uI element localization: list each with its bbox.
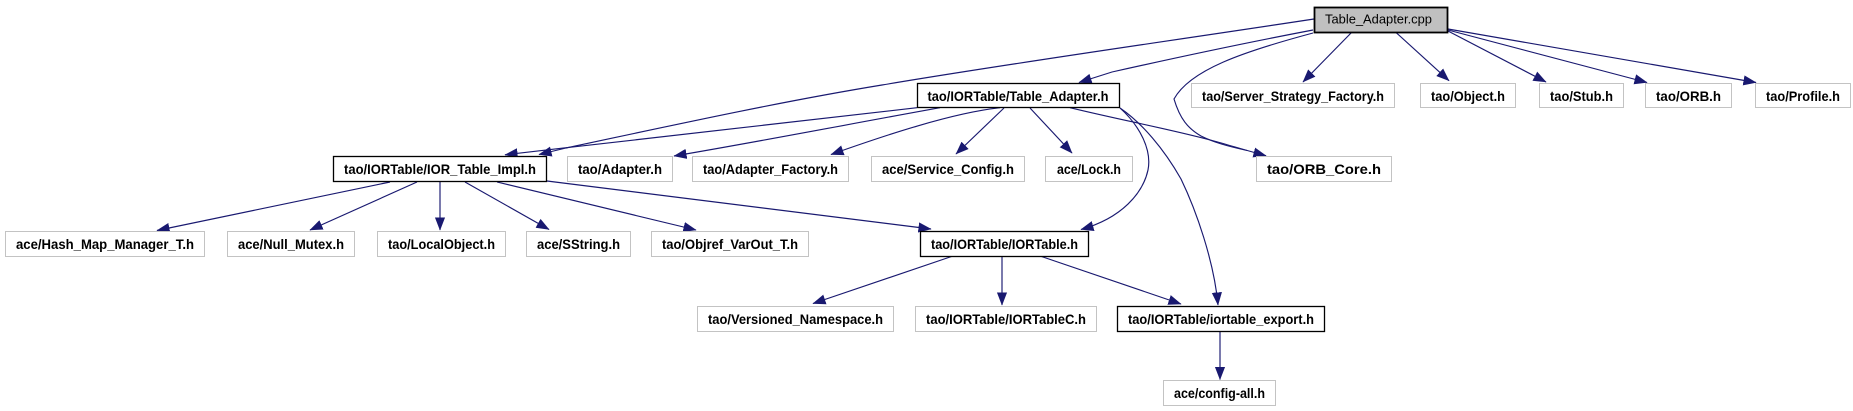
node tao/Versioned_Namespace.h bbox=[698, 307, 894, 332]
node tao/IORTable/Table_Adapter.h bbox=[918, 84, 1120, 108]
edge tao/IORTable/Table_Adapter.h -> ace/Lock.h bbox=[1030, 108, 1072, 153]
svg-text:tao/Objref_VarOut_T.h: tao/Objref_VarOut_T.h bbox=[662, 236, 798, 252]
node tao/ORB_Core.h bbox=[1257, 157, 1392, 182]
node tao/Adapter_Factory.h bbox=[693, 157, 849, 182]
node ace/SString.h bbox=[527, 232, 631, 257]
node tao/Server_Strategy_Factory.h bbox=[1192, 84, 1395, 108]
edge tao/IORTable/IORTable.h -> tao/IORTable/iortable_export.h bbox=[1040, 256, 1181, 304]
svg-text:tao/Versioned_Namespace.h: tao/Versioned_Namespace.h bbox=[708, 311, 883, 327]
svg-text:tao/Adapter_Factory.h: tao/Adapter_Factory.h bbox=[703, 161, 838, 177]
edge tao/IORTable/Table_Adapter.h -> tao/IORTable/IOR_Table_Impl.h bbox=[505, 108, 917, 155]
svg-text:ace/config-all.h: ace/config-all.h bbox=[1174, 385, 1265, 401]
edge tao/IORTable/IOR_Table_Impl.h -> tao/IORTable/IORTable.h bbox=[547, 181, 931, 229]
node tao/LocalObject.h bbox=[378, 232, 506, 257]
edge tao/IORTable/Table_Adapter.h -> tao/Adapter_Factory.h bbox=[831, 108, 1000, 155]
edge tao/IORTable/IOR_Table_Impl.h -> ace/Hash_Map_Manager_T.h bbox=[157, 182, 390, 231]
svg-text:tao/ORB_Core.h: tao/ORB_Core.h bbox=[1267, 161, 1381, 177]
node tao/IORTable/IORTable.h bbox=[921, 232, 1089, 257]
svg-text:ace/Service_Config.h: ace/Service_Config.h bbox=[882, 161, 1014, 177]
svg-text:tao/Profile.h: tao/Profile.h bbox=[1766, 88, 1840, 104]
svg-text:ace/Null_Mutex.h: ace/Null_Mutex.h bbox=[238, 236, 344, 252]
edge tao/IORTable/Table_Adapter.h -> tao/Adapter.h bbox=[674, 108, 940, 156]
node tao/Objref_VarOut_T.h bbox=[652, 232, 809, 257]
edge tao/IORTable/IORTable.h -> tao/Versioned_Namespace.h bbox=[813, 256, 953, 304]
edge tao/IORTable/iortable_export.h -> ace/config-all.h bbox=[1219, 331, 1221, 380]
svg-text:ace/Hash_Map_Manager_T.h: ace/Hash_Map_Manager_T.h bbox=[16, 236, 194, 252]
node ace/config-all.h bbox=[1164, 381, 1276, 406]
svg-text:Table_Adapter.cpp: Table_Adapter.cpp bbox=[1325, 12, 1432, 27]
svg-text:tao/IORTable/IORTable.h: tao/IORTable/IORTable.h bbox=[931, 236, 1078, 252]
node tao/Adapter.h bbox=[568, 157, 673, 182]
svg-text:tao/IORTable/IOR_Table_Impl.h: tao/IORTable/IOR_Table_Impl.h bbox=[344, 161, 536, 177]
edge tao/IORTable/IOR_Table_Impl.h -> ace/SString.h bbox=[465, 182, 549, 230]
svg-text:ace/Lock.h: ace/Lock.h bbox=[1057, 161, 1121, 177]
edge Table_Adapter.cpp -> tao/Server_Strategy_Factory.h bbox=[1303, 32, 1352, 82]
svg-text:tao/ORB.h: tao/ORB.h bbox=[1656, 88, 1721, 104]
node Table_Adapter.cpp (root) bbox=[1315, 8, 1448, 33]
svg-text:tao/Adapter.h: tao/Adapter.h bbox=[578, 161, 662, 177]
edge tao/IORTable/Table_Adapter.h -> tao/IORTable/IORTable.h (curve) bbox=[1081, 108, 1149, 230]
node tao/Object.h bbox=[1421, 84, 1516, 108]
edge tao/IORTable/Table_Adapter.h -> tao/IORTable/iortable_export.h (curve) bbox=[1120, 108, 1218, 305]
edge tao/IORTable/IOR_Table_Impl.h -> tao/Objref_VarOut_T.h bbox=[497, 182, 696, 230]
svg-text:tao/Stub.h: tao/Stub.h bbox=[1550, 88, 1613, 104]
edge Table_Adapter.cpp -> tao/IORTable/Table_Adapter.h bbox=[1079, 30, 1313, 83]
svg-text:tao/IORTable/iortable_export.h: tao/IORTable/iortable_export.h bbox=[1128, 311, 1314, 327]
node tao/ORB.h bbox=[1646, 84, 1732, 108]
node tao/IORTable/IORTableC.h bbox=[916, 307, 1097, 332]
node ace/Lock.h bbox=[1046, 157, 1133, 182]
svg-text:ace/SString.h: ace/SString.h bbox=[537, 236, 620, 252]
node tao/IORTable/IOR_Table_Impl.h bbox=[334, 157, 547, 182]
edge Table_Adapter.cpp -> tao/Stub.h bbox=[1448, 31, 1546, 82]
svg-text:tao/IORTable/Table_Adapter.h: tao/IORTable/Table_Adapter.h bbox=[928, 88, 1109, 104]
edge Table_Adapter.cpp -> tao/Object.h bbox=[1396, 33, 1449, 81]
edge tao/IORTable/IOR_Table_Impl.h -> tao/LocalObject.h bbox=[439, 182, 441, 230]
svg-text:tao/IORTable/IORTableC.h: tao/IORTable/IORTableC.h bbox=[926, 311, 1086, 327]
edge Table_Adapter.cpp -> tao/ORB_Core.h (curve) bbox=[1174, 33, 1313, 151]
edge Table_Adapter.cpp -> tao/IORTable/IOR_Table_Impl.h bbox=[539, 19, 1314, 155]
edge Table_Adapter.cpp -> tao/ORB.h bbox=[1448, 30, 1647, 83]
node ace/Service_Config.h bbox=[872, 157, 1025, 182]
node tao/Stub.h bbox=[1540, 84, 1624, 108]
node tao/IORTable/iortable_export.h bbox=[1118, 307, 1325, 332]
svg-text:tao/Object.h: tao/Object.h bbox=[1431, 88, 1505, 104]
edge Table_Adapter.cpp -> tao/Profile.h bbox=[1448, 29, 1756, 83]
edge tao/IORTable/Table_Adapter.h -> tao/ORB_Core.h bbox=[1070, 108, 1266, 156]
edge tao/IORTable/IORTable.h -> tao/IORTable/IORTableC.h bbox=[1001, 256, 1003, 305]
node tao/Profile.h bbox=[1756, 84, 1851, 108]
edge tao/IORTable/IOR_Table_Impl.h -> ace/Null_Mutex.h bbox=[310, 182, 417, 230]
edge tao/IORTable/Table_Adapter.h -> ace/Service_Config.h bbox=[956, 108, 1004, 154]
node ace/Null_Mutex.h bbox=[228, 232, 355, 257]
node ace/Hash_Map_Manager_T.h bbox=[6, 232, 205, 257]
svg-text:tao/LocalObject.h: tao/LocalObject.h bbox=[388, 236, 495, 252]
svg-text:tao/Server_Strategy_Factory.h: tao/Server_Strategy_Factory.h bbox=[1202, 88, 1384, 104]
